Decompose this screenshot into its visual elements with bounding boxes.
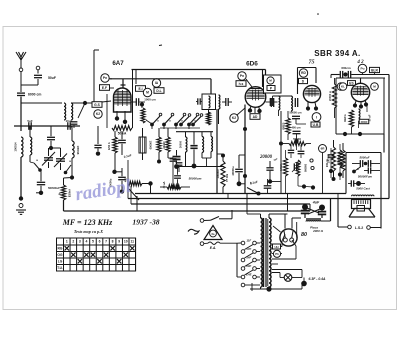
svg-text:BLR: BLR — [371, 68, 378, 72]
wire — [115, 155, 123, 172]
svg-text:D.L: D.L — [156, 89, 161, 93]
cathode line — [243, 105, 247, 194]
winding A 30000 — [179, 132, 187, 167]
transformer bottom leads — [250, 283, 302, 292]
capacitor 200cm — [326, 148, 335, 173]
label 5000 Cast — [356, 187, 371, 191]
tube 42 — [351, 83, 369, 101]
wire — [20, 72, 22, 92]
resistor 20000w — [328, 78, 337, 118]
coil L1 secondary — [71, 103, 73, 120]
tube 75 top — [307, 87, 318, 89]
bus line 2 — [128, 198, 389, 200]
IF2 coil A — [279, 96, 280, 110]
tube 80 — [280, 229, 297, 246]
svg-text:1: 1 — [66, 240, 68, 244]
filter cap C2 — [318, 205, 326, 219]
capacitor bottom — [174, 168, 181, 190]
pin label GS — [92, 102, 102, 108]
tube 42 leads — [353, 100, 368, 109]
wire — [251, 283, 253, 291]
label 6D6 — [246, 61, 258, 68]
wire — [298, 176, 313, 187]
wire — [296, 124, 306, 150]
svg-text:1000 cm: 1000 cm — [144, 98, 156, 102]
label 42 — [356, 60, 364, 65]
bus line 3 — [131, 203, 310, 205]
power transformer T2 secondary — [268, 218, 271, 287]
capacitor IF1 left — [196, 98, 202, 104]
svg-text:100018: 100018 — [76, 146, 80, 155]
switch — [247, 182, 261, 196]
wire riser — [210, 79, 212, 94]
resistor 1MA — [280, 150, 288, 194]
wire — [338, 199, 381, 228]
tube 6D6 — [245, 70, 266, 108]
svg-text:SBR 394 A.: SBR 394 A. — [314, 49, 360, 58]
band switch S1 — [150, 113, 199, 129]
resistor — [207, 112, 211, 125]
svg-text:Ph: Ph — [275, 252, 279, 256]
wire — [269, 214, 301, 229]
wire — [21, 97, 62, 104]
capacitor 5000uF — [352, 156, 380, 167]
label SBR 394 A. — [314, 49, 360, 58]
table X marks — [65, 246, 135, 263]
transformer primary taps — [237, 238, 260, 286]
coil L1 primary — [64, 103, 66, 120]
label 80 — [301, 232, 307, 238]
svg-text:75: 75 — [309, 60, 315, 66]
label 20000uF — [259, 155, 277, 162]
meter I — [312, 113, 321, 122]
resistor 50000 horizontal — [279, 137, 311, 146]
svg-text:50uF: 50uF — [48, 76, 56, 80]
pin label AD — [250, 114, 260, 120]
wire — [109, 79, 114, 88]
svg-text:500000: 500000 — [304, 164, 307, 173]
capacitor stack — [168, 158, 182, 172]
wire — [209, 109, 219, 124]
svg-text:OG: OG — [57, 253, 63, 257]
resistor 40u — [160, 181, 190, 189]
tube 6D6 cathode leads — [248, 106, 262, 113]
pilot lamp — [272, 270, 326, 287]
svg-text:650 uA: 650 uA — [342, 154, 345, 162]
svg-text:100014: 100014 — [14, 142, 18, 151]
coil 30000 — [359, 109, 369, 124]
filter cap C1 — [301, 204, 309, 218]
wire — [102, 101, 111, 102]
wire — [21, 79, 38, 85]
capacitor mid — [266, 161, 281, 184]
capacitor chain — [109, 168, 126, 194]
svg-text:1 M.A.: 1 M.A. — [280, 163, 283, 171]
pen squiggle 2 — [188, 229, 199, 234]
svg-text:6000 cm: 6000 cm — [28, 93, 41, 97]
pin label 6R — [319, 145, 327, 153]
wire — [20, 97, 22, 132]
svg-text:11: 11 — [130, 240, 134, 244]
caps under resistor — [288, 145, 305, 158]
svg-text:5: 5 — [92, 240, 94, 244]
svg-text:600cm: 600cm — [341, 66, 351, 70]
tiny dot — [317, 13, 319, 15]
svg-text:5uF: 5uF — [27, 119, 33, 123]
capacitor mid — [47, 126, 55, 150]
svg-text:RD: RD — [301, 71, 306, 75]
svg-text:K2: K2 — [96, 112, 100, 116]
svg-text:Pn: Pn — [240, 74, 244, 78]
wire — [71, 102, 85, 104]
node — [83, 101, 87, 105]
speaker cone — [349, 209, 375, 218]
capacitor 50000cm — [289, 111, 302, 125]
label Placa 2000 — [310, 226, 323, 234]
svg-text:E.I: E.I — [138, 87, 142, 91]
variable capacitor CV1 — [42, 148, 55, 168]
pin label M — [143, 88, 151, 96]
capacitor padding — [37, 170, 60, 195]
wire — [20, 157, 22, 197]
bus verticals — [128, 160, 137, 211]
svg-text:T.U.: T.U. — [57, 266, 63, 270]
svg-text:Pn: Pn — [103, 76, 107, 80]
svg-text:30000: 30000 — [162, 141, 166, 149]
wave switch a — [30, 158, 42, 172]
42 bottom rail — [336, 78, 384, 136]
tube 6A7 — [114, 88, 132, 112]
svg-text:G.S: G.S — [94, 103, 100, 107]
svg-text:6D6: 6D6 — [246, 61, 258, 68]
pin label EI — [136, 86, 146, 92]
wire riser to bus — [132, 70, 134, 129]
inner bus line — [110, 78, 211, 80]
field choke — [306, 219, 321, 222]
svg-text:8: 8 — [112, 240, 114, 244]
IF2 capacitor B — [295, 98, 297, 107]
75 box outline — [298, 68, 317, 95]
pin label RD — [299, 69, 307, 77]
resistor — [141, 108, 145, 123]
svg-text:40000u: 40000u — [231, 166, 235, 175]
svg-text:E.A.: E.A. — [210, 246, 217, 250]
svg-text:LG: LG — [58, 260, 63, 264]
capacitor 0.1uF switch — [264, 179, 272, 194]
pin label PnT — [101, 74, 109, 82]
svg-text:6: 6 — [99, 240, 101, 244]
label 50000Fum — [358, 175, 373, 179]
svg-text:5000 Cast: 5000 Cast — [356, 187, 371, 191]
resistor REPA — [343, 110, 354, 134]
label box M P — [264, 75, 282, 93]
pin label UB — [311, 122, 320, 127]
winding C — [202, 132, 213, 167]
svg-text:200 cm: 200 cm — [326, 159, 329, 167]
svg-text:500 uA: 500 uA — [225, 174, 228, 182]
bus connectors — [228, 194, 338, 212]
pin label DL — [154, 88, 164, 94]
wire to bus — [63, 200, 65, 211]
capacitor thick — [190, 132, 197, 169]
svg-text:AD: AD — [253, 115, 258, 119]
wire — [136, 70, 142, 109]
antenna terminal 1 — [19, 68, 23, 72]
pin label BLR — [370, 67, 380, 74]
svg-text:Tests mop cu p.X: Tests mop cu p.X — [74, 229, 103, 234]
wire long vertical — [216, 109, 218, 194]
antenna — [16, 52, 26, 68]
wire — [297, 222, 305, 238]
capacitor 5uF — [67, 122, 77, 129]
svg-text:11F: 11F — [246, 238, 251, 242]
resistor 50000u — [336, 143, 345, 178]
pin label Pn — [238, 72, 246, 80]
grid capacitor 1000cm — [132, 98, 157, 106]
svg-text:80: 80 — [301, 232, 307, 238]
node — [19, 196, 23, 200]
capacitor block left — [173, 150, 181, 164]
svg-text:100000: 100000 — [149, 141, 153, 150]
wire — [269, 222, 281, 232]
svg-text:9: 9 — [118, 240, 120, 244]
capacitor 400cm — [291, 126, 301, 144]
winding B — [202, 132, 204, 158]
label 75 — [309, 60, 315, 66]
capacitor trimmer 1 — [27, 119, 33, 130]
tube 75 leads — [306, 102, 318, 111]
svg-text:BRES: BRES — [283, 122, 286, 129]
svg-text:3: 3 — [79, 240, 81, 244]
capacitor trimmer 2 — [65, 119, 72, 130]
field coil — [352, 195, 375, 196]
pin label hs — [236, 81, 246, 87]
svg-text:30000: 30000 — [361, 121, 368, 124]
pin label K2 — [230, 114, 238, 122]
wire — [359, 105, 368, 129]
svg-text:E50kA: E50kA — [68, 189, 72, 197]
label 6A7 — [112, 60, 124, 67]
resistor 25000 — [61, 178, 72, 201]
svg-text:1937 -38: 1937 -38 — [132, 218, 159, 227]
svg-text:S: S — [250, 182, 252, 186]
pin label KL — [339, 83, 347, 91]
label MF=123 KHz — [62, 218, 113, 227]
capacitor 50000uF — [364, 167, 380, 173]
svg-text:10: 10 — [124, 240, 128, 244]
pin label K2 — [94, 110, 102, 118]
speaker terminals — [348, 225, 371, 230]
speaker transformer box — [352, 200, 371, 212]
wire mid bottom — [174, 164, 224, 169]
pin label ES — [348, 81, 356, 86]
svg-text:RG: RG — [58, 247, 63, 251]
bus line 4 — [64, 210, 311, 212]
watermark radiopl — [74, 176, 133, 206]
IF transformer T1 box — [202, 94, 216, 110]
svg-text:Pu: Pu — [361, 67, 365, 71]
svg-text:E.F: E.F — [102, 86, 107, 90]
resistor 650 — [338, 144, 345, 177]
earth triangle — [204, 226, 222, 240]
label tests — [74, 229, 103, 234]
pin label EF — [100, 85, 110, 91]
terminal — [19, 204, 23, 208]
capacitor — [266, 98, 278, 106]
resistor 30000 — [157, 128, 166, 164]
wire — [129, 170, 175, 200]
band switch S2 — [179, 114, 203, 127]
wire — [269, 214, 288, 218]
capacitor 0.1uF — [118, 131, 132, 159]
svg-text:20000: 20000 — [259, 155, 273, 160]
fuse EA — [200, 242, 237, 250]
tiny mark — [159, 44, 162, 47]
wire — [237, 108, 245, 115]
node — [140, 102, 144, 106]
capacitor padder — [222, 98, 232, 106]
resistor 100000 — [216, 154, 225, 194]
wire — [78, 103, 85, 118]
coil L2 — [14, 137, 24, 157]
svg-text:KL: KL — [341, 85, 345, 89]
svg-text:h.s: h.s — [239, 82, 244, 86]
antenna terminal 2 — [36, 66, 40, 70]
pin label IA — [152, 79, 160, 87]
resistor — [166, 128, 170, 158]
wire — [85, 50, 99, 103]
svg-text:50000 cm: 50000 cm — [289, 111, 302, 115]
svg-text:2000 Ω: 2000 Ω — [312, 229, 324, 233]
IF2 capacitor A — [271, 96, 273, 107]
coil T1 secondary — [219, 95, 220, 109]
svg-text:30000: 30000 — [179, 140, 183, 148]
mid network top rail — [176, 131, 213, 133]
IF2 coil B — [291, 96, 293, 111]
capacitor left — [94, 126, 101, 156]
switch row — [352, 167, 361, 174]
pin label D — [299, 78, 308, 83]
svg-text:10uF: 10uF — [65, 119, 72, 123]
svg-text:20000 w: 20000 w — [328, 90, 332, 101]
top bus line — [132, 70, 266, 76]
svg-text:30 uF: 30 uF — [368, 114, 372, 121]
wire — [29, 126, 31, 162]
coil L3 — [30, 137, 32, 155]
svg-text:400 cm: 400 cm — [291, 126, 301, 130]
wire — [21, 192, 41, 194]
tube 6D6 top — [246, 79, 252, 87]
svg-text:6A7: 6A7 — [112, 60, 124, 67]
tube 75 — [303, 85, 320, 102]
wire — [70, 126, 74, 180]
tube 6A7 cathode leads — [115, 111, 127, 124]
svg-text:50000um: 50000um — [189, 177, 202, 181]
svg-text:50000Fum: 50000Fum — [358, 175, 373, 179]
svg-text:6.3F - 0.4A: 6.3F - 0.4A — [309, 277, 327, 281]
crossed leads — [305, 199, 320, 215]
svg-text:7: 7 — [105, 240, 107, 244]
wire — [273, 96, 292, 194]
capacitor 40000uF — [231, 155, 245, 186]
resistor 50k — [107, 94, 132, 136]
svg-text:2: 2 — [72, 240, 74, 244]
wire — [323, 153, 341, 194]
svg-text:4uF: 4uF — [312, 201, 320, 205]
station table grid — [57, 238, 136, 271]
rectifier heater wires — [272, 234, 285, 257]
pin label M — [371, 83, 379, 91]
svg-text:U.B: U.B — [313, 123, 319, 127]
resistor 100000 — [327, 140, 336, 181]
label 30uF — [368, 114, 372, 121]
svg-text:MF = 123 KHz: MF = 123 KHz — [62, 218, 113, 227]
svg-text:5000uF: 5000uF — [360, 156, 370, 160]
label 500uA — [225, 174, 228, 182]
svg-text:REP.A: REP.A — [343, 114, 347, 122]
tube 42 top — [360, 78, 362, 83]
mains switch — [200, 210, 232, 222]
label 1937-38 — [132, 218, 159, 227]
wire — [146, 120, 200, 128]
ground — [16, 210, 26, 214]
svg-text:50000uF: 50000uF — [48, 186, 60, 190]
svg-text:L.S.2: L.S.2 — [355, 226, 364, 230]
svg-text:E50 A: E50 A — [107, 142, 111, 149]
variable capacitor CV2 — [51, 148, 67, 170]
capacitor 6000cm — [17, 93, 41, 97]
svg-text:UH: UH — [274, 245, 278, 249]
resistor E50k — [107, 131, 117, 174]
pin label Pu — [358, 64, 367, 74]
capacitor pair low — [348, 180, 365, 186]
pin label K2 — [337, 83, 345, 91]
label 0.1uF — [250, 180, 259, 185]
tube top cap — [121, 79, 126, 88]
svg-text:I: I — [316, 116, 317, 120]
wire — [37, 70, 39, 74]
svg-text:K2: K2 — [232, 116, 236, 120]
capacitor 600cm pair — [331, 66, 389, 78]
wire — [14, 125, 80, 127]
bus line 1 — [135, 193, 346, 195]
label 50000um — [189, 177, 202, 181]
power transformer T2 primary — [261, 218, 263, 287]
svg-text:M: M — [146, 91, 149, 95]
power transformer core — [264, 218, 266, 287]
coil L4 — [72, 141, 80, 158]
mark 4 — [58, 191, 61, 196]
label 4uF — [312, 201, 320, 205]
resistor 400 — [125, 177, 153, 185]
svg-text:uF: uF — [274, 158, 278, 162]
resistor 50k — [283, 111, 291, 140]
wire — [247, 210, 261, 243]
svg-text:4: 4 — [85, 240, 87, 244]
heater winding wires — [272, 240, 296, 264]
right bus riser — [388, 75, 390, 199]
wire — [336, 77, 385, 79]
capacitor 50uF — [34, 75, 56, 80]
right box outline — [346, 134, 384, 229]
volume pot — [292, 160, 307, 176]
wire — [321, 199, 331, 222]
terminals — [302, 159, 315, 190]
coil block 100000 — [139, 128, 153, 160]
wave switch b — [64, 159, 72, 174]
